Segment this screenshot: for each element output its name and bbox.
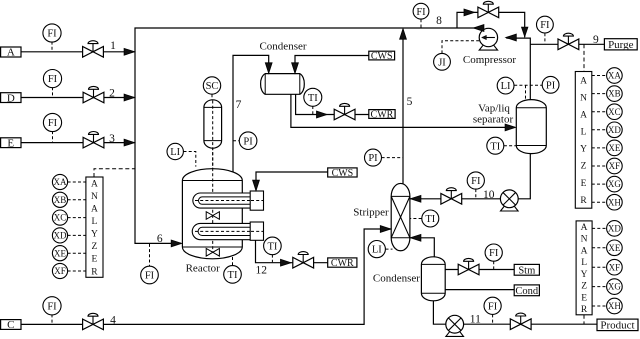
svg-text:Y: Y (581, 270, 588, 280)
svg-text:Z: Z (581, 282, 587, 292)
svg-text:A: A (7, 47, 15, 59)
svg-text:XA: XA (54, 177, 67, 187)
svg-text:XC: XC (608, 107, 621, 117)
svg-text:LI: LI (372, 245, 382, 256)
svg-text:FI: FI (145, 271, 155, 282)
svg-text:Purge: Purge (608, 39, 634, 51)
svg-text:XH: XH (608, 197, 621, 207)
svg-text:XF: XF (609, 161, 621, 171)
svg-text:CWR: CWR (331, 258, 354, 269)
svg-text:FI: FI (48, 118, 58, 129)
svg-text:Cond: Cond (515, 286, 539, 297)
svg-text:N: N (91, 192, 98, 202)
svg-text:Condenser: Condenser (259, 41, 306, 53)
svg-text:TI: TI (267, 241, 277, 252)
svg-text:A: A (91, 205, 98, 215)
svg-text:R: R (91, 267, 98, 277)
svg-text:XE: XE (608, 143, 620, 153)
svg-text:TI: TI (425, 214, 435, 225)
svg-text:XH: XH (608, 301, 621, 311)
svg-text:FI: FI (489, 248, 499, 259)
svg-text:XE: XE (54, 248, 66, 258)
svg-text:Compressor: Compressor (463, 54, 517, 66)
svg-text:A: A (91, 179, 98, 189)
svg-text:12: 12 (255, 265, 267, 277)
svg-text:FI: FI (540, 20, 550, 31)
svg-text:E: E (581, 179, 587, 189)
svg-text:A: A (581, 246, 588, 256)
svg-text:XF: XF (609, 262, 621, 272)
svg-text:XG: XG (608, 179, 621, 189)
svg-text:FI: FI (48, 74, 58, 85)
svg-text:CWS: CWS (332, 168, 354, 179)
svg-text:XG: XG (608, 282, 621, 292)
svg-text:Reactor: Reactor (186, 263, 221, 275)
svg-text:A: A (581, 223, 588, 233)
svg-text:XD: XD (54, 230, 67, 240)
svg-text:CWS: CWS (371, 51, 393, 62)
svg-text:JI: JI (438, 57, 446, 68)
svg-text:10: 10 (483, 189, 495, 201)
svg-text:TI: TI (308, 93, 318, 104)
svg-text:Condenser: Condenser (373, 273, 420, 285)
svg-text:7: 7 (236, 99, 242, 111)
svg-text:R: R (581, 305, 588, 315)
svg-text:FI: FI (488, 301, 498, 312)
svg-text:XA: XA (608, 71, 621, 81)
svg-text:R: R (580, 196, 587, 206)
svg-text:CWR: CWR (371, 109, 394, 120)
svg-text:Z: Z (581, 162, 587, 172)
svg-text:3: 3 (109, 133, 115, 145)
svg-text:FI: FI (47, 301, 57, 312)
svg-text:XB: XB (608, 89, 621, 99)
svg-text:XF: XF (54, 266, 66, 276)
svg-text:XD: XD (608, 125, 621, 135)
svg-text:TI: TI (490, 141, 500, 152)
svg-text:4: 4 (110, 314, 116, 326)
svg-text:Stripper: Stripper (353, 206, 389, 218)
svg-text:FI: FI (416, 7, 426, 18)
svg-text:Y: Y (91, 230, 98, 240)
svg-text:PI: PI (546, 80, 556, 91)
svg-text:LI: LI (170, 147, 180, 158)
svg-text:FI: FI (47, 29, 57, 40)
svg-text:PI: PI (243, 136, 253, 147)
svg-text:TI: TI (228, 270, 238, 281)
svg-text:11: 11 (470, 314, 481, 326)
svg-text:Z: Z (92, 242, 98, 252)
svg-text:A: A (580, 110, 587, 120)
svg-text:L: L (581, 128, 587, 138)
svg-text:N: N (580, 93, 587, 103)
svg-text:A: A (580, 76, 587, 86)
svg-text:XE: XE (608, 243, 620, 253)
svg-text:E: E (7, 137, 14, 149)
svg-text:separator: separator (473, 113, 514, 125)
svg-text:N: N (581, 235, 588, 245)
svg-text:5: 5 (407, 96, 413, 108)
svg-text:XB: XB (54, 195, 67, 205)
svg-text:D: D (7, 92, 15, 104)
svg-text:Y: Y (580, 145, 587, 155)
svg-text:L: L (581, 258, 587, 268)
svg-text:L: L (92, 217, 98, 227)
svg-text:C: C (7, 319, 14, 331)
svg-text:6: 6 (157, 233, 163, 245)
svg-text:XC: XC (54, 213, 67, 223)
svg-text:FI: FI (471, 176, 481, 187)
svg-text:9: 9 (593, 34, 599, 46)
svg-text:2: 2 (109, 88, 115, 100)
svg-text:Stm: Stm (518, 265, 535, 276)
svg-text:E: E (581, 293, 587, 303)
svg-text:XD: XD (608, 223, 621, 233)
svg-text:8: 8 (436, 15, 442, 27)
svg-text:1: 1 (110, 40, 116, 52)
svg-text:LI: LI (501, 81, 511, 92)
svg-text:E: E (92, 255, 98, 265)
svg-text:PI: PI (368, 153, 378, 164)
svg-text:Product: Product (600, 320, 634, 332)
svg-text:SC: SC (206, 81, 219, 92)
